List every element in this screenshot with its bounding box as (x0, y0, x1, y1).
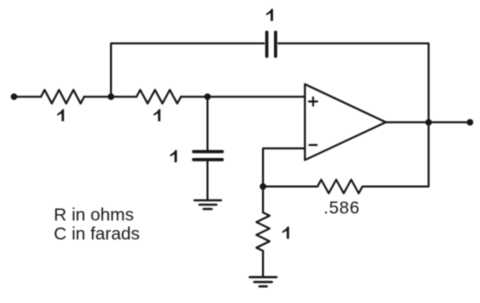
resistor R2 (137, 90, 182, 104)
node B (204, 93, 211, 100)
op-amp + pin mark (309, 97, 317, 105)
resistor R1 (41, 90, 84, 104)
capacitor C2 (194, 152, 223, 160)
label R4 value 1 (282, 227, 289, 239)
wire R2 to op-amp + input (181, 96, 305, 98)
wire node A up to top feedback (111, 43, 264, 96)
wire C2 to ground (207, 161, 209, 199)
wire node B down to C2 (207, 97, 209, 150)
label R2 value 1 (154, 109, 161, 121)
ground G1 (195, 200, 222, 209)
capacitor C1 (267, 32, 276, 56)
resistor R4 (256, 213, 269, 251)
op-amp - pin mark (309, 144, 316, 146)
wire input to R1 (14, 96, 41, 98)
wire R1 to R2 (84, 96, 136, 98)
node C (260, 183, 267, 190)
svg-text:.586: .586 (324, 198, 360, 218)
op-amp U1 (305, 84, 386, 160)
label C1 value 1 (266, 9, 273, 21)
label R1 value 1 (57, 109, 64, 121)
node A (108, 93, 115, 100)
wire op-amp output (386, 121, 470, 123)
wire op-amp - input (263, 148, 305, 212)
wire R4 to ground (262, 251, 264, 276)
label C2 value 1 (170, 150, 177, 162)
node: output junction (425, 119, 432, 126)
wire C1 to output node (278, 43, 428, 122)
svg-text:R in ohms: R in ohms (54, 205, 134, 225)
node: input terminal (11, 93, 18, 100)
node: output terminal (467, 119, 474, 126)
resistor R3 and wire to output node (263, 122, 429, 193)
ground G2 (250, 277, 277, 286)
svg-text:C in farads: C in farads (54, 224, 140, 244)
